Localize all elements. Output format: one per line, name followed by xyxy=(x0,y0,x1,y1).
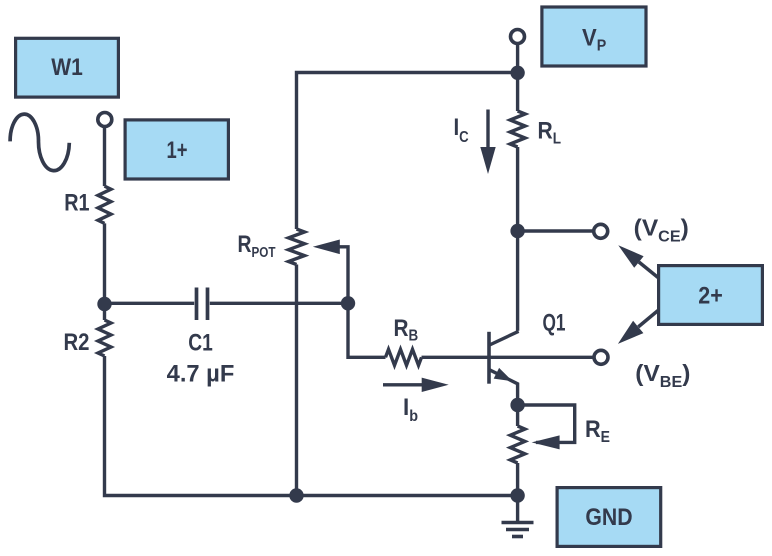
svg-text:GND: GND xyxy=(585,504,632,531)
svg-text:Ib: Ib xyxy=(403,394,418,425)
svg-text:R2: R2 xyxy=(64,329,90,356)
svg-text:1+: 1+ xyxy=(167,137,188,164)
svg-text:RE: RE xyxy=(585,416,610,446)
svg-text:R1: R1 xyxy=(64,190,89,217)
svg-text:4.7 µF: 4.7 µF xyxy=(167,361,235,388)
svg-text:(VCE): (VCE) xyxy=(634,215,689,246)
svg-text:C1: C1 xyxy=(188,330,213,357)
svg-text:Q1: Q1 xyxy=(543,310,566,337)
svg-text:IC: IC xyxy=(454,114,469,146)
svg-text:W1: W1 xyxy=(51,54,83,81)
svg-text:RPOT: RPOT xyxy=(238,231,276,261)
svg-text:RL: RL xyxy=(538,118,562,148)
svg-text:RB: RB xyxy=(394,315,419,345)
svg-text:(VBE): (VBE) xyxy=(635,360,690,391)
svg-text:2+: 2+ xyxy=(698,283,723,310)
